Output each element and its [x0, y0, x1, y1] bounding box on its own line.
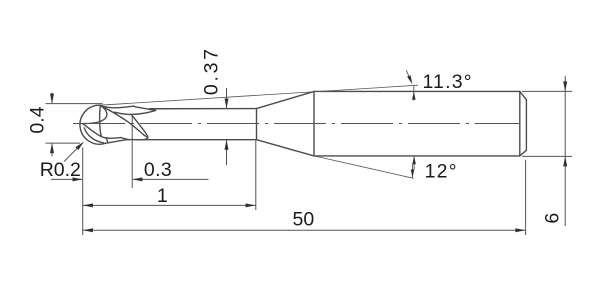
dim 0.37 dimension line: [226, 88, 228, 165]
arrowhead angle 12 upper: [412, 156, 416, 164]
flute flag bottom edge: [115, 110, 156, 114]
arrowhead leader R0.2: [76, 142, 85, 151]
svg-text:6: 6: [542, 213, 564, 224]
arrowhead dim 50 right: [515, 228, 525, 232]
arrowhead dim 0.4 bottom: [50, 143, 54, 153]
flute sickle outer curve: [100, 106, 148, 138]
shank top edge: [314, 90, 520, 92]
dim 50 dimension line: [83, 229, 525, 231]
arrowhead dim 6 bottom: [563, 156, 567, 166]
flute flag top edge: [101, 106, 156, 111]
taper angle bottom thin line: [314, 156, 414, 178]
flute sickle inner curve: [131, 114, 148, 137]
arrowhead dim 1 left: [83, 203, 93, 207]
flute tip hook to neck: [137, 138, 148, 140]
shank chamfer start line: [519, 91, 521, 155]
neck bottom edge: [137, 139, 257, 141]
ball lower flute edge: [83, 124, 121, 139]
arrowhead dim 6 top: [563, 81, 567, 91]
svg-text:50: 50: [293, 209, 315, 231]
angle 11.3 arc arrow tail: [406, 70, 410, 78]
dim 0.4 dimension line: [51, 93, 53, 157]
shank top chamfer: [520, 91, 527, 99]
taper top edge: [257, 91, 315, 108]
arrowhead angle 11.3 upper: [407, 75, 412, 84]
dim 6 dimension line: [564, 76, 566, 226]
ball cutting edge S-curve: [83, 105, 107, 123]
svg-text:1: 1: [157, 185, 168, 207]
neck top edge: [150, 108, 257, 110]
dim 6 bottom extension line: [522, 155, 572, 157]
arrowhead angle 11.3 lower: [412, 92, 416, 100]
arrowhead dim 1 right: [246, 203, 256, 207]
neck-taper junction line: [256, 109, 258, 140]
svg-text:12°: 12°: [425, 161, 458, 183]
taper bottom edge: [257, 140, 315, 156]
arrowhead dim 0.3 right: [132, 177, 142, 181]
ball relief land arc: [84, 128, 103, 143]
taper-shank junction line: [313, 91, 315, 155]
svg-text:0.37: 0.37: [200, 46, 222, 95]
cusp connector: [121, 138, 129, 140]
dim 1 dimension line: [83, 204, 256, 206]
centerline: [73, 123, 519, 125]
angle 12 upper arrow tail: [413, 156, 415, 169]
leader R0.2: [64, 143, 83, 162]
arrowhead dim 0.3 left: [73, 177, 83, 181]
shank bottom edge: [314, 155, 520, 157]
ball nose outer arc: [80, 105, 106, 144]
angle 12 lower arrow tail: [412, 164, 414, 178]
arrowhead dim 50 left: [83, 228, 93, 232]
extension line at shank end x=525.6: [525, 160, 527, 235]
arrowhead dim 0.4 top: [50, 94, 54, 104]
shank bottom chamfer: [520, 150, 527, 156]
extension line at flute end x=132.2: [131, 115, 133, 189]
ball gash line: [100, 106, 102, 137]
dim 0.4 top extension line: [46, 103, 103, 105]
flute bottom connector: [106, 138, 107, 142]
svg-text:R0.2: R0.2: [40, 159, 81, 181]
extension line at neck end x=255.8: [255, 141, 257, 211]
svg-text:0.3: 0.3: [144, 159, 172, 181]
shank end face: [525, 100, 527, 151]
svg-text:11.3°: 11.3°: [422, 71, 472, 93]
arrowhead dim 0.37 bottom: [225, 140, 229, 150]
dim 0.3 dimension line left part: [51, 178, 82, 180]
dim 0.3 dimension line right part: [133, 178, 209, 180]
arrowhead angle 12 lower: [411, 170, 415, 178]
extension line at tool tip x=82.7: [82, 148, 84, 236]
silhouette ball to neck bottom: [106, 139, 137, 143]
dim 6 top extension line: [522, 90, 572, 92]
taper angle top thin line: [100, 85, 418, 105]
angle 11.3 lower arrow tail: [413, 85, 415, 101]
svg-text:0.4: 0.4: [27, 106, 49, 133]
dim 0.4 bottom extension line: [46, 142, 81, 144]
arrowhead dim 0.37 top: [225, 99, 229, 109]
